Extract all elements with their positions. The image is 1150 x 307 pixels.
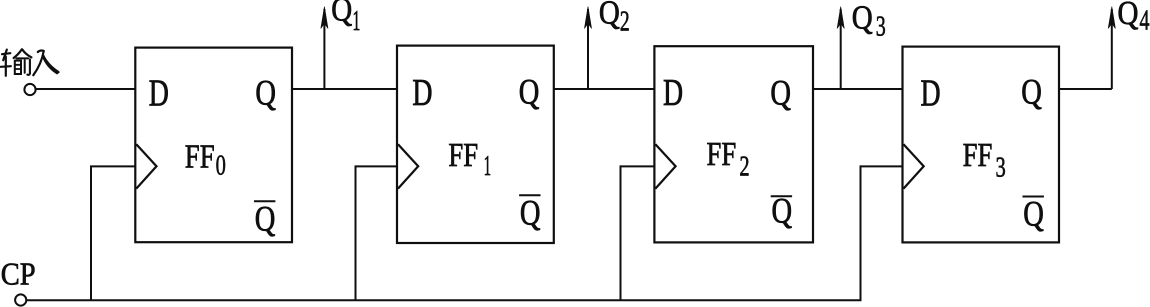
svg-text:1: 1: [352, 5, 360, 37]
flip-flop FF2 box: [654, 46, 813, 242]
arrow for output Q2: [584, 7, 591, 91]
wire: input terminal to FF0 D: [36, 88, 135, 90]
svg-text:2: 2: [620, 6, 630, 37]
svg-text:3: 3: [876, 11, 886, 42]
svg-text:Q: Q: [331, 0, 352, 28]
svg-text:3: 3: [996, 152, 1006, 183]
svg-text:Q: Q: [255, 199, 276, 239]
wire: clock riser+stub to FF1: [356, 166, 398, 300]
overline of Q-bar FF3: [1023, 196, 1044, 198]
svg-text:0: 0: [216, 150, 226, 181]
svg-text:2: 2: [739, 151, 749, 182]
wire: clock riser+stub to FF2: [621, 166, 655, 300]
wire: clock riser+stub to FF0: [91, 166, 135, 300]
wire: clock riser+stub to FF3: [861, 166, 903, 300]
clock edge triangle of FF0: [136, 144, 156, 188]
svg-text:Q: Q: [255, 73, 276, 113]
svg-text:D: D: [412, 72, 432, 114]
flip-flop FF3 box: [903, 47, 1060, 243]
svg-text:D: D: [921, 72, 941, 114]
overline of Q-bar FF1: [519, 194, 540, 196]
wire: FF1 Q to FF2 D: [554, 88, 655, 90]
flip-flop FF0 box: [135, 48, 292, 243]
input terminal circle: [24, 84, 35, 95]
wire: CP bottom bus: [27, 299, 862, 301]
svg-text:D: D: [149, 72, 169, 114]
svg-text:FF: FF: [707, 135, 737, 173]
flip-flop FF1 box: [397, 46, 554, 243]
overline of Q-bar FF0: [254, 200, 275, 202]
svg-text:Q: Q: [1118, 0, 1139, 31]
clock edge triangle of FF1: [398, 144, 418, 188]
input label 输入 (hand-drawn strokes): [1, 49, 60, 75]
svg-text:FF: FF: [185, 137, 215, 175]
arrow for output Q4: [1108, 7, 1115, 90]
overline of Q-bar FF2: [771, 195, 792, 197]
arrow for output Q1: [321, 7, 328, 91]
arrow for output Q3: [837, 7, 844, 91]
svg-text:Q: Q: [519, 72, 540, 112]
wire: FF0 Q to FF1 D: [292, 88, 397, 90]
svg-text:CP: CP: [1, 257, 36, 292]
CP terminal circle: [15, 294, 26, 305]
svg-text:Q: Q: [520, 193, 541, 233]
svg-text:D: D: [663, 72, 683, 114]
svg-text:Q: Q: [599, 0, 620, 31]
wire: FF3 Q output to Q4 arrow corner: [1059, 88, 1112, 90]
wire: FF2 Q to FF3 D: [813, 88, 903, 90]
svg-text:Q: Q: [852, 0, 873, 36]
svg-text:1: 1: [484, 148, 492, 181]
svg-text:Q: Q: [1021, 71, 1042, 111]
svg-text:Q: Q: [1023, 193, 1044, 233]
svg-text:FF: FF: [963, 136, 993, 174]
svg-text:FF: FF: [448, 136, 478, 174]
svg-text:4: 4: [1140, 5, 1150, 36]
clock edge triangle of FF2: [655, 144, 675, 188]
clock edge triangle of FF3: [904, 144, 924, 188]
svg-text:Q: Q: [770, 73, 791, 113]
